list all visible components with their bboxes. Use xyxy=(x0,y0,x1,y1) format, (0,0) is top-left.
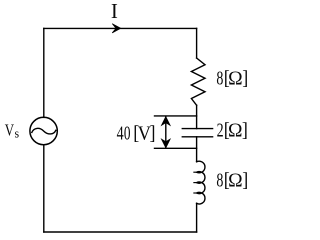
wire left lower xyxy=(43,145,45,232)
voltage arrowhead down xyxy=(161,139,170,148)
wire capacitor to inductor xyxy=(196,137,198,162)
svg-text:40[V]: 40[V] xyxy=(117,122,156,144)
voltage arrow shaft xyxy=(165,117,167,148)
voltage ref line top xyxy=(155,115,197,117)
current arrowhead I xyxy=(112,24,121,33)
svg-text:8[Ω]: 8[Ω] xyxy=(216,170,248,192)
wire top xyxy=(44,27,197,29)
svg-text:2[Ω]: 2[Ω] xyxy=(217,120,248,142)
svg-text:I: I xyxy=(111,0,118,23)
svg-text:8[Ω]: 8[Ω] xyxy=(216,67,248,89)
capacitor C1 2Ω bottom plate xyxy=(182,136,212,138)
wire left upper xyxy=(43,28,45,117)
ac source Vs circle xyxy=(30,117,57,144)
wire resistor to capacitor xyxy=(196,105,198,128)
wire right: top to resistor xyxy=(196,28,198,58)
voltage arrowhead up xyxy=(161,117,170,126)
wire inductor to bottom xyxy=(196,203,198,232)
resistor R1 8Ω zigzag xyxy=(191,58,205,105)
inductor L1 8Ω coil xyxy=(197,161,205,204)
svg-text:V: V xyxy=(5,121,15,140)
wire bottom xyxy=(44,231,197,233)
ac source sine wave xyxy=(32,128,56,134)
inductor junction stub 2 xyxy=(194,182,197,184)
voltage ref line bottom xyxy=(155,147,197,149)
inductor junction stub 1 xyxy=(194,171,197,173)
inductor junction stub 3 xyxy=(194,192,197,194)
svg-text:s: s xyxy=(15,126,20,140)
capacitor C1 2Ω top plate xyxy=(182,128,212,130)
